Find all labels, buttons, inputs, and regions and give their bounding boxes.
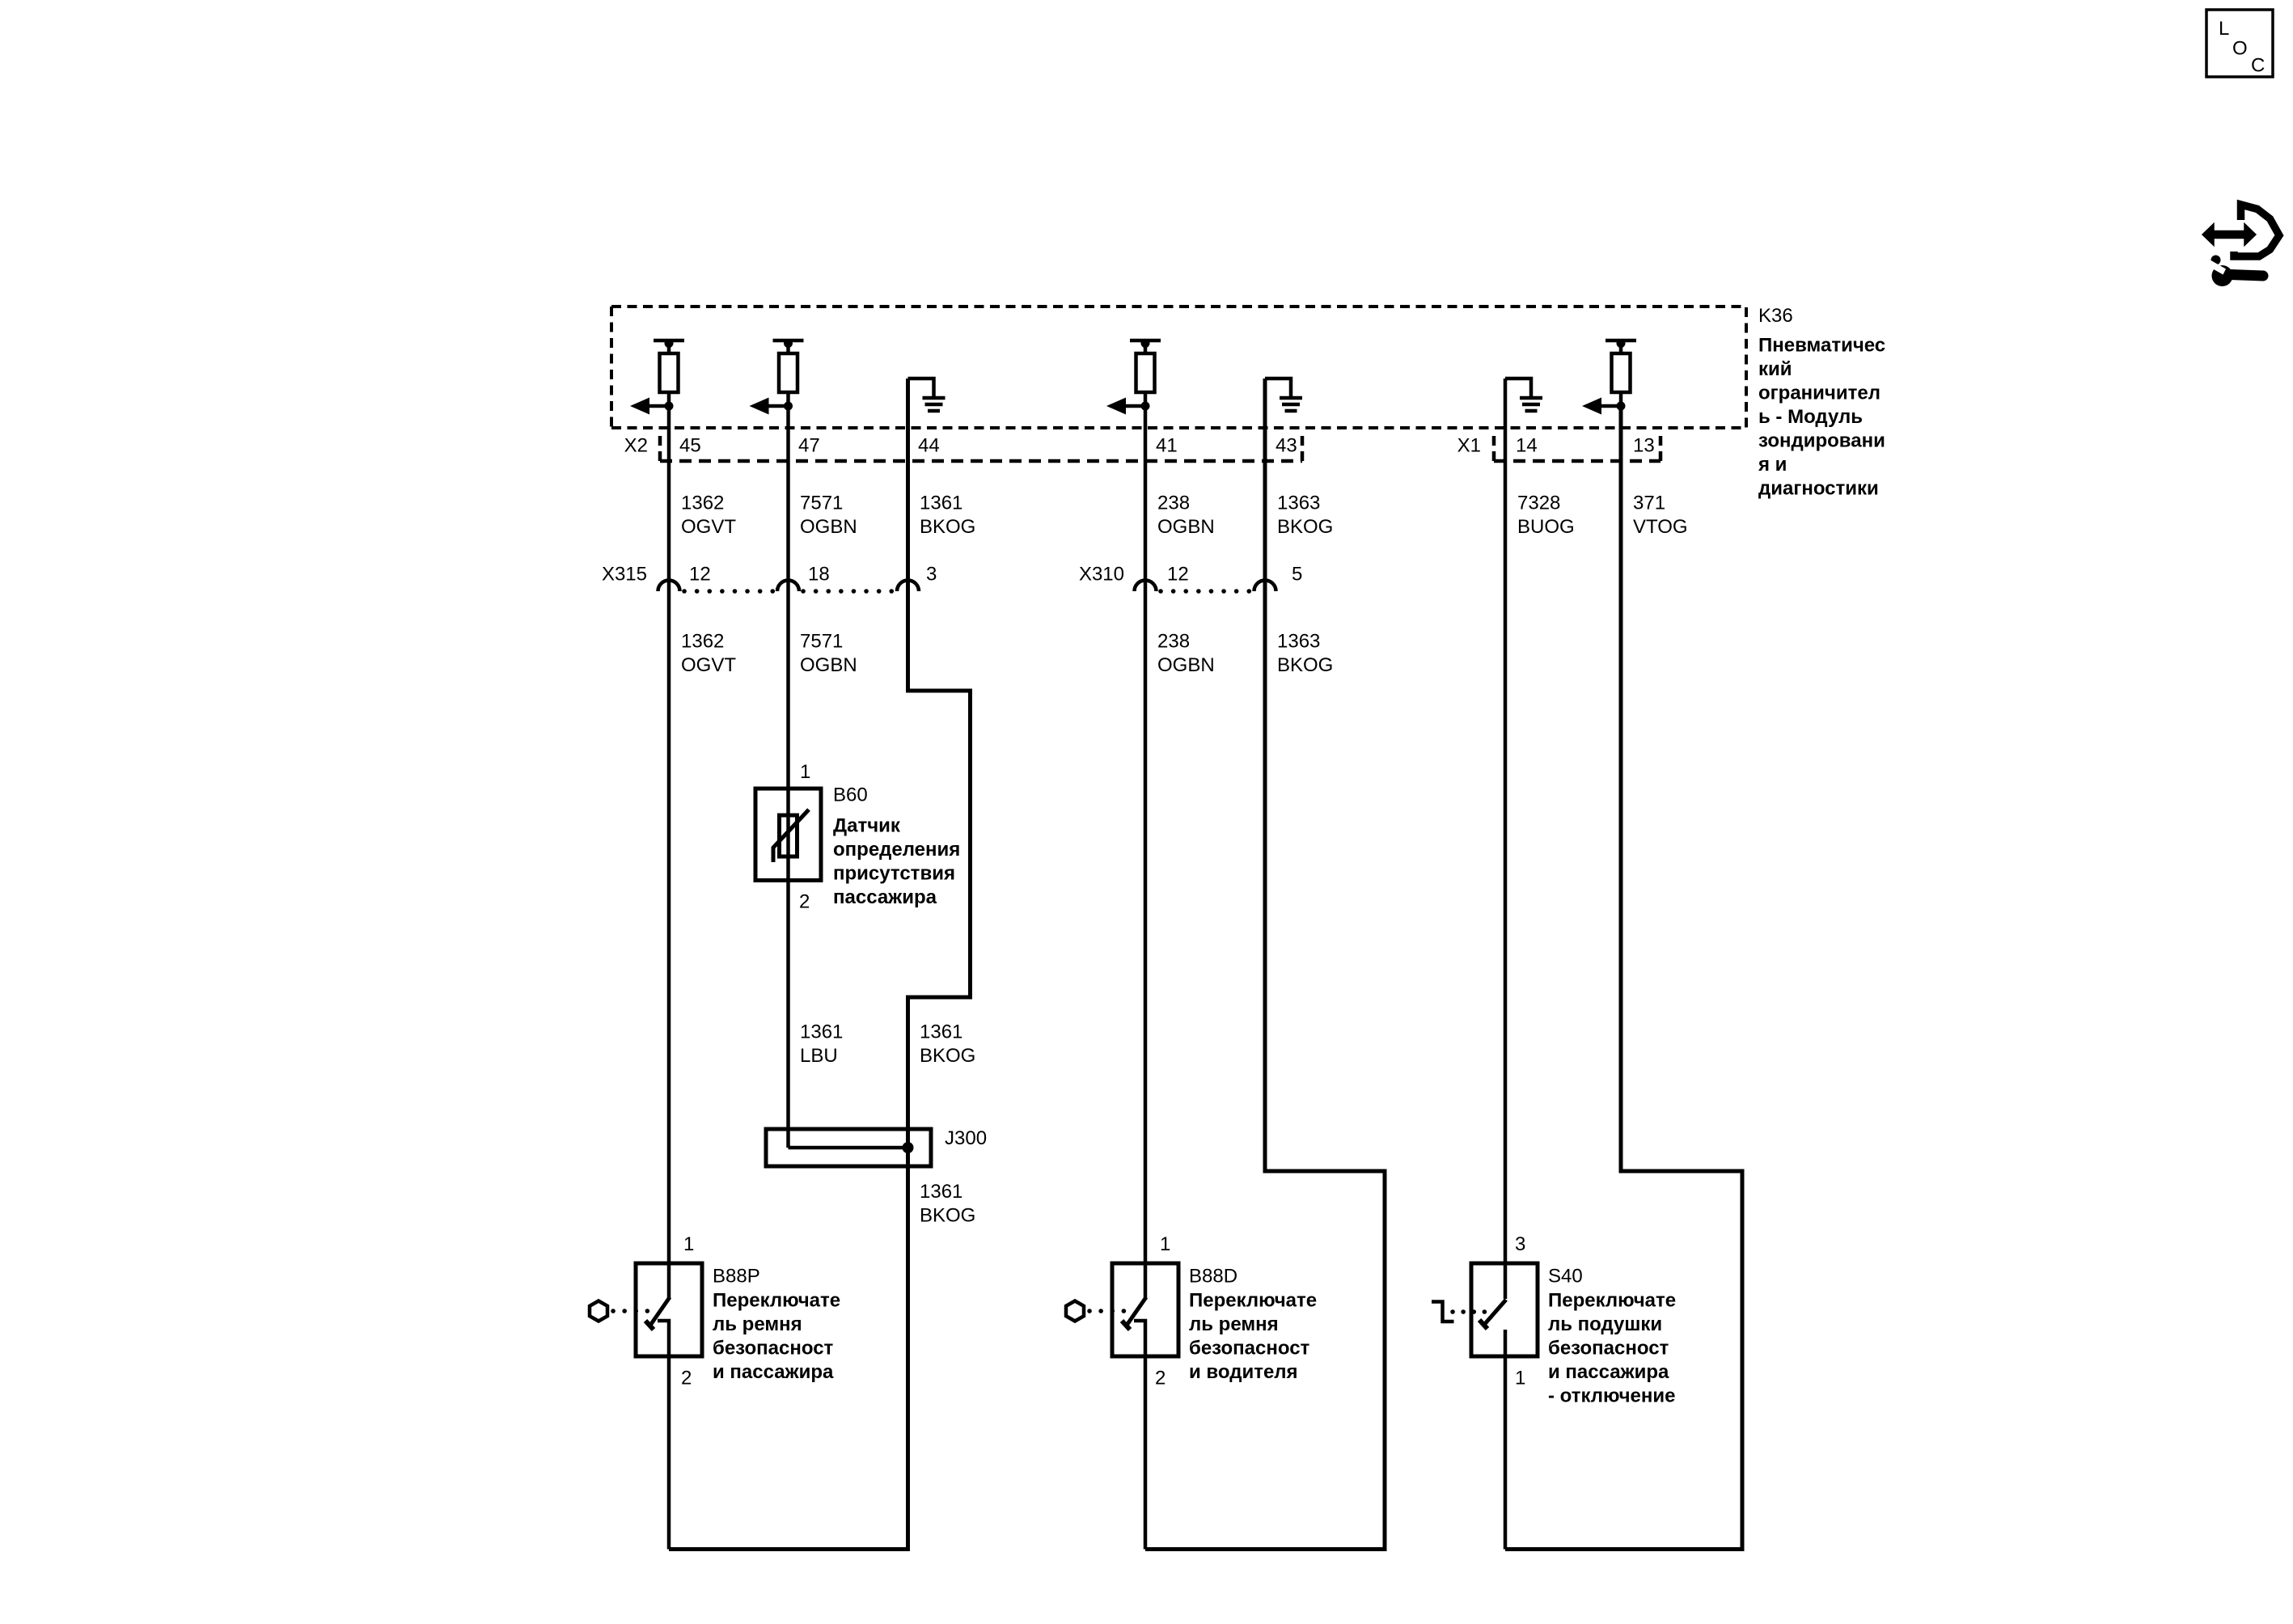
svg-text:K36: K36 xyxy=(1758,305,1793,327)
switch B88P contact step xyxy=(658,1321,669,1357)
svg-text:2: 2 xyxy=(681,1368,692,1389)
module K36 dashed outline box xyxy=(611,307,1746,428)
splice J300 junction dot xyxy=(903,1142,914,1153)
sensor B60 box xyxy=(755,789,821,881)
splice J300 internal link xyxy=(789,1146,908,1150)
svg-text:43: 43 xyxy=(1276,435,1297,457)
switch B88D blade xyxy=(1126,1297,1146,1326)
wire 7328 BUOG (pin 14 to S40 pin 3) xyxy=(1504,379,1508,1299)
wire 1361 BKOG (pin 44 through J300 to bottom loop and B88P pin 2) xyxy=(669,379,971,1550)
thermistor symbol inside B60 xyxy=(773,810,809,862)
svg-text:X315: X315 xyxy=(602,564,647,586)
wire segment S40 pin 1 xyxy=(1504,1357,1508,1550)
svg-text:47: 47 xyxy=(798,435,820,457)
svg-text:1: 1 xyxy=(1515,1368,1525,1389)
wire 238 OGBN (pin 41 to B88D pin 1) xyxy=(1144,406,1148,1299)
wire 1363 BKOG (pin 43 to bottom loop and B88D pin 2) xyxy=(1145,379,1385,1550)
X310 dotted connector line xyxy=(1161,589,1251,594)
service/diagnostics icon (double arrow, bent arrow, wrench) xyxy=(2202,205,2279,286)
wire 371 VTOG (pin 13 to bottom loop and S40 pin 1) xyxy=(1505,406,1742,1550)
svg-text:5: 5 xyxy=(1292,564,1302,586)
svg-text:1: 1 xyxy=(1160,1233,1170,1255)
switch B88D actuator hexagon xyxy=(1066,1301,1084,1322)
switch B88D blade tick xyxy=(1122,1321,1130,1330)
svg-text:J300: J300 xyxy=(945,1127,987,1149)
ground symbol in K36 at pin 43 xyxy=(1265,379,1302,411)
svg-text:L: L xyxy=(2219,18,2229,40)
switch B88P box xyxy=(636,1263,702,1356)
svg-text:14: 14 xyxy=(1516,435,1538,457)
svg-text:45: 45 xyxy=(679,435,701,457)
svg-text:O: O xyxy=(2232,38,2248,60)
switch S40 blade xyxy=(1483,1300,1506,1326)
connector X310 pin 5 arc xyxy=(1254,581,1276,592)
svg-text:C: C xyxy=(2251,55,2265,77)
svg-text:12: 12 xyxy=(1167,564,1189,586)
resistor in K36 at pin 13 xyxy=(1582,339,1636,415)
svg-text:2: 2 xyxy=(799,891,810,913)
svg-text:X2: X2 xyxy=(624,435,648,457)
wire 1362 OGVT (pin 45 to B88P pin 1) xyxy=(667,406,671,1299)
ground symbol in K36 at pin 14 xyxy=(1505,379,1542,411)
resistor in K36 at pin 45 xyxy=(630,339,684,415)
switch B88D box xyxy=(1112,1263,1178,1356)
connector X315 pin 18 arc xyxy=(777,581,799,592)
svg-text:3: 3 xyxy=(926,564,937,586)
switch B88P blade tick xyxy=(645,1321,654,1330)
svg-text:B88D: B88D xyxy=(1189,1266,1237,1288)
svg-text:44: 44 xyxy=(918,435,940,457)
S40 actuator step symbol xyxy=(1432,1302,1454,1322)
svg-text:X1: X1 xyxy=(1457,435,1481,457)
resistor in K36 at pin 41 xyxy=(1106,339,1161,415)
svg-text:S40: S40 xyxy=(1548,1266,1583,1288)
S40 actuator dotted link xyxy=(1453,1309,1485,1314)
switch S40 lower contact xyxy=(1504,1330,1508,1357)
switch S40 blade tick xyxy=(1479,1320,1487,1329)
svg-text:13: 13 xyxy=(1633,435,1655,457)
wire segment B88D pin 2 xyxy=(1144,1357,1148,1550)
switch B88P blade xyxy=(649,1297,670,1326)
svg-text:1: 1 xyxy=(800,761,810,783)
LOC reference box xyxy=(2206,10,2273,77)
connector X1 dashed outline xyxy=(1494,436,1661,461)
connector X315 pin 12 arc xyxy=(658,581,680,592)
svg-text:Переключатель подушкибезопасно: Переключатель подушкибезопасности пассаж… xyxy=(1548,1290,1676,1407)
B88D actuator dotted link xyxy=(1089,1309,1124,1313)
ground symbol in K36 at pin 44 xyxy=(908,379,946,411)
wire 7571 OGBN / 1361 LBU (pin 47 to B60 to J300) xyxy=(786,406,790,1148)
splice J300 box xyxy=(766,1129,931,1166)
connector X2 dashed outline xyxy=(660,436,1302,461)
resistor in K36 at pin 47 xyxy=(750,339,804,415)
wire segment B88P pin 2 xyxy=(667,1357,671,1550)
svg-text:12: 12 xyxy=(689,564,711,586)
svg-text:X310: X310 xyxy=(1079,564,1124,586)
svg-text:B60: B60 xyxy=(833,785,868,806)
B88P actuator dotted link xyxy=(613,1309,648,1313)
X315 dotted connector line xyxy=(684,589,894,594)
connector X315 pin 3 arc xyxy=(897,581,919,592)
switch B88P actuator hexagon xyxy=(590,1301,607,1322)
connector X310 pin 12 arc xyxy=(1135,581,1157,592)
switch S40 box xyxy=(1471,1263,1538,1356)
svg-text:18: 18 xyxy=(808,564,830,586)
svg-text:41: 41 xyxy=(1156,435,1178,457)
svg-text:2: 2 xyxy=(1155,1368,1166,1389)
svg-text:B88P: B88P xyxy=(713,1266,760,1288)
switch B88D contact step xyxy=(1134,1321,1145,1357)
svg-text:1: 1 xyxy=(683,1233,694,1255)
svg-text:3: 3 xyxy=(1515,1233,1525,1255)
